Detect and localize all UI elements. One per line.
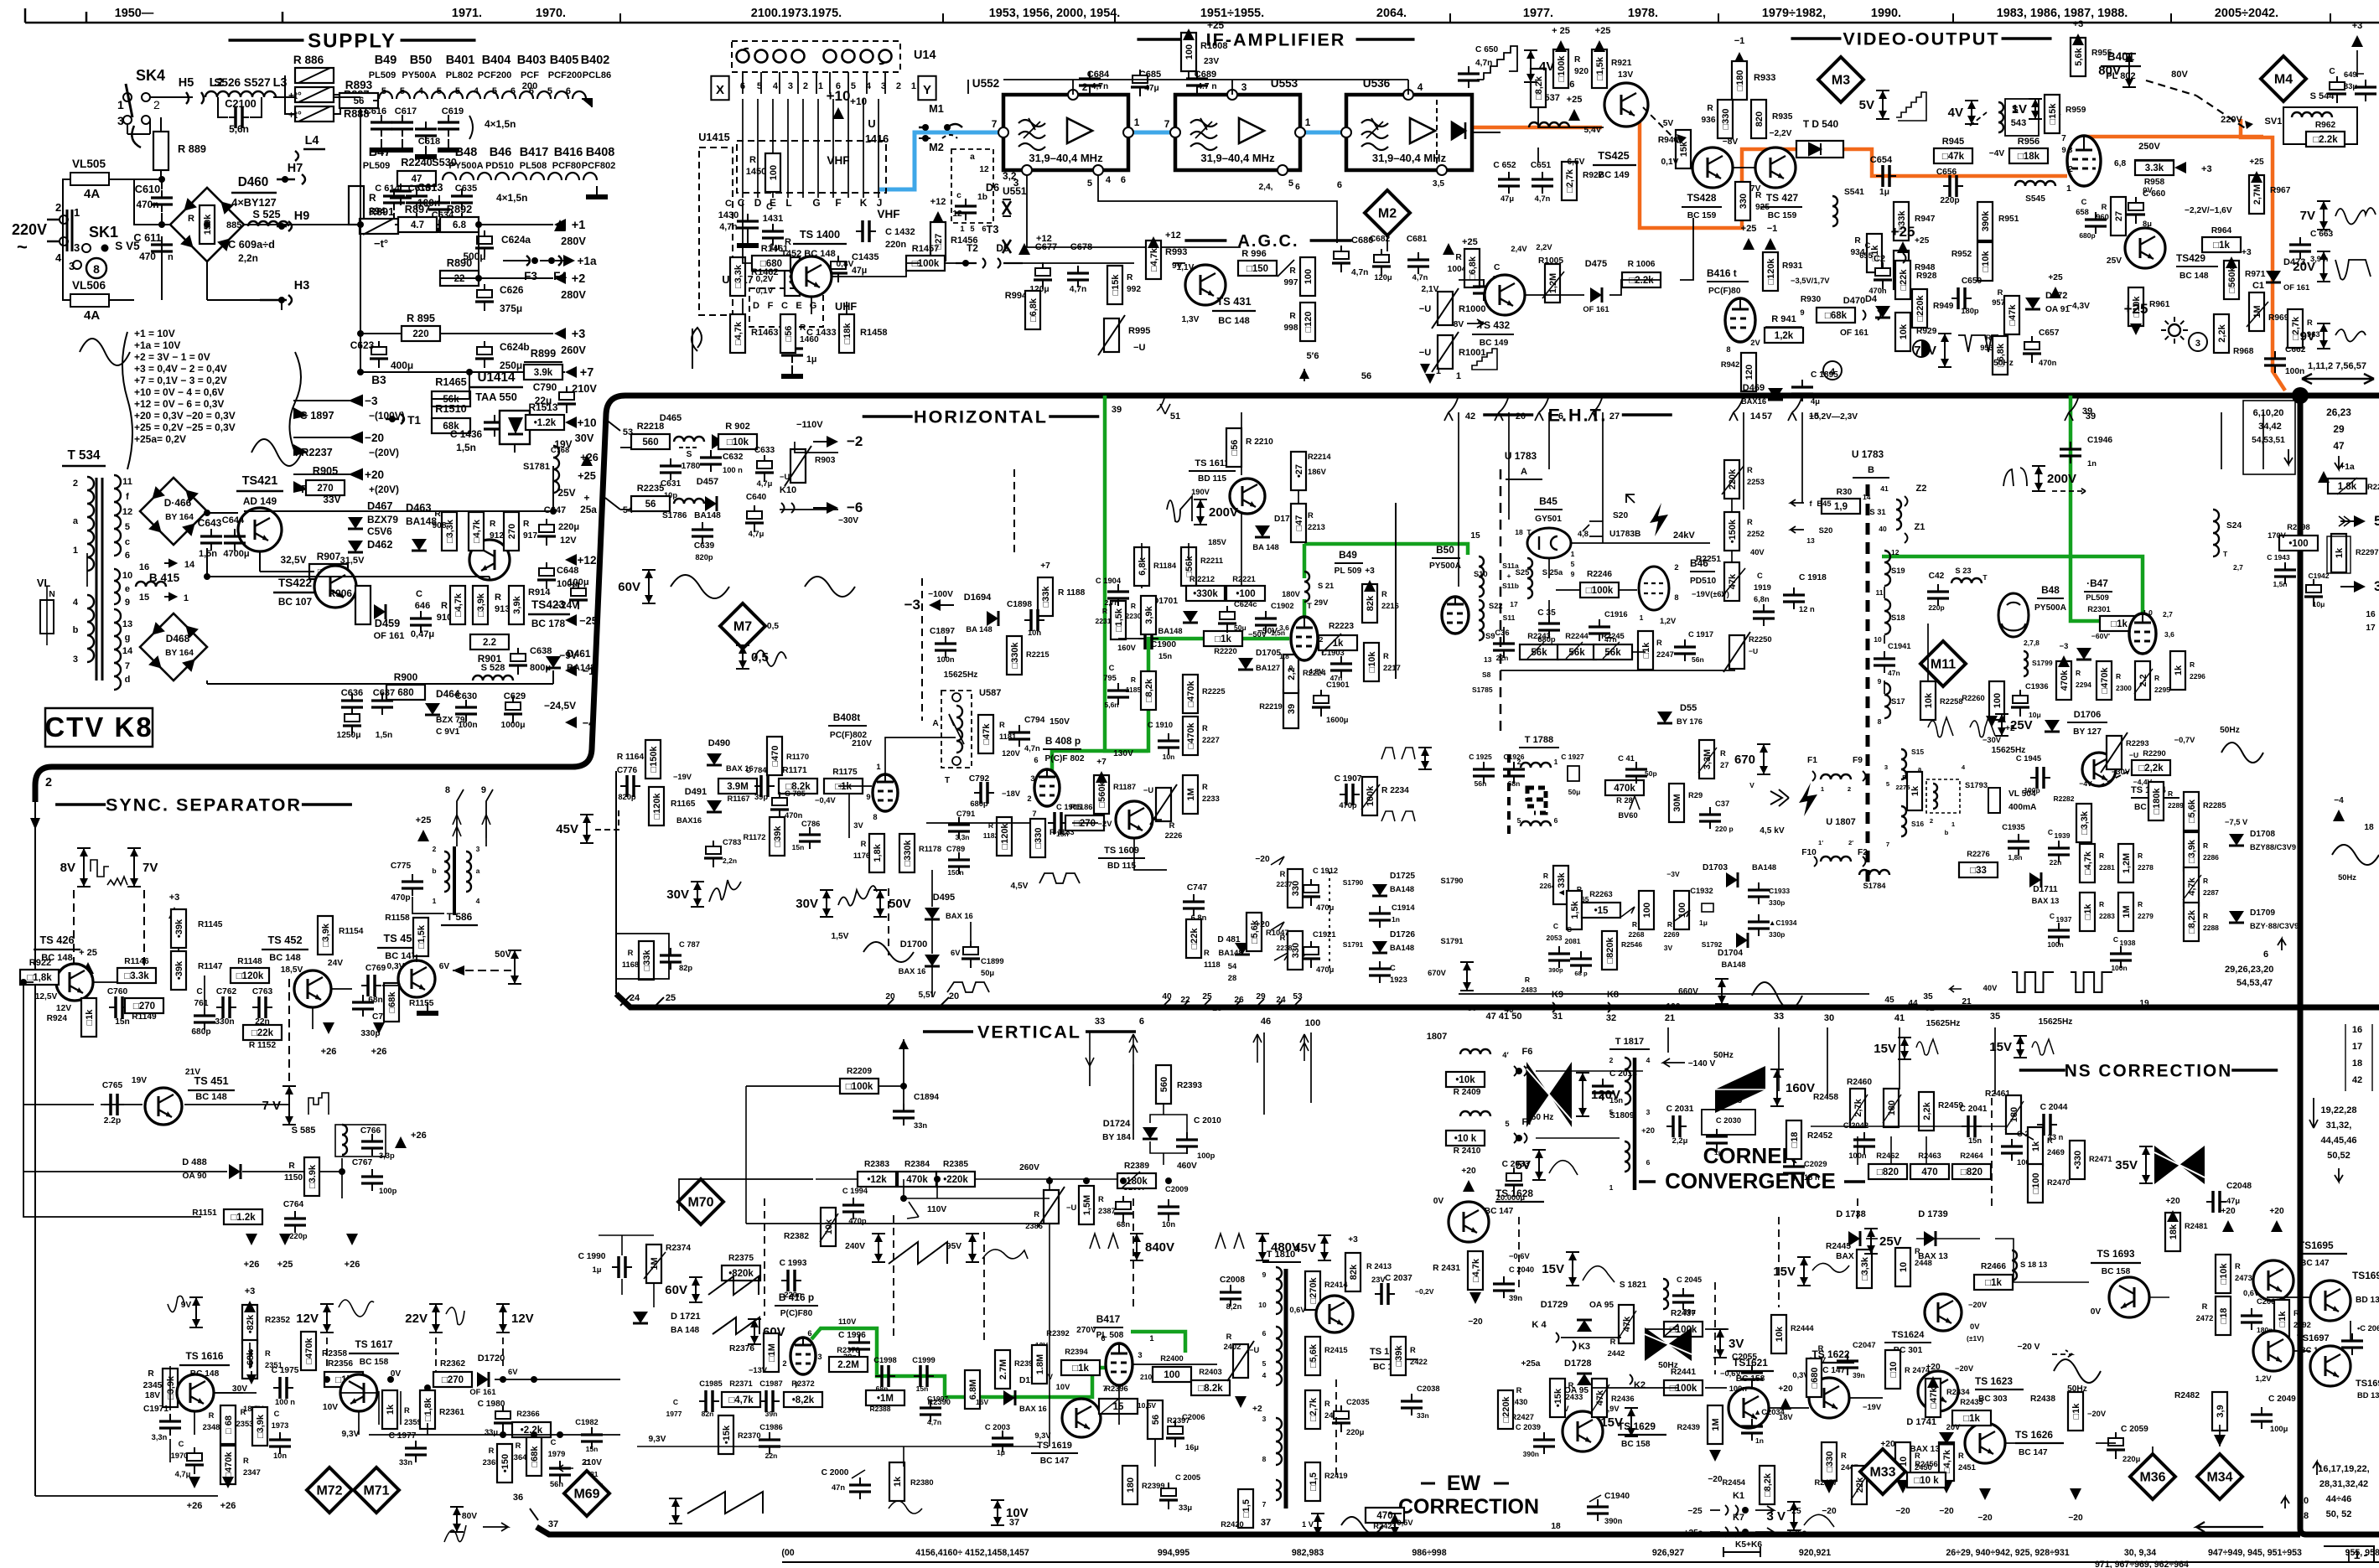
svg-text:2081: 2081 xyxy=(1565,937,1581,945)
svg-text:27: 27 xyxy=(2114,211,2124,221)
svg-text:C: C xyxy=(673,1398,678,1406)
diode D457 xyxy=(694,477,721,520)
diamond M69 xyxy=(564,1471,609,1516)
svg-text:180p: 180p xyxy=(1961,307,1979,315)
svg-text:R2437: R2437 xyxy=(1671,1309,1696,1318)
resistor R2263 xyxy=(1582,890,1635,918)
svg-text:3: 3 xyxy=(788,81,793,91)
transistor TS1626 xyxy=(1965,1423,2005,1463)
svg-text:100: 100 xyxy=(1993,693,2003,708)
coil S1784 xyxy=(1859,870,1889,875)
svg-text:8: 8 xyxy=(1726,345,1730,354)
cap C2033 xyxy=(1496,1160,1530,1202)
svg-text:BC 158: BC 158 xyxy=(360,1358,389,1367)
svg-text:□2.2k: □2.2k xyxy=(2313,135,2338,145)
svg-text:100: 100 xyxy=(1304,269,1314,284)
svg-text:82p: 82p xyxy=(679,964,692,972)
cap C1436 xyxy=(450,415,505,453)
svg-text:□1k: □1k xyxy=(1072,1364,1089,1374)
svg-text:1,8n: 1,8n xyxy=(2008,853,2022,862)
resistor R2372 xyxy=(784,1379,822,1407)
green trace B49 grid xyxy=(1303,599,1307,616)
heater pin numbers row1 xyxy=(381,86,571,96)
svg-text:670: 670 xyxy=(1734,753,1755,767)
wave sine h1 xyxy=(671,575,729,598)
svg-text:1,3V: 1,3V xyxy=(1182,315,1200,324)
svg-text:50Hz: 50Hz xyxy=(2220,726,2240,735)
svg-text:1,1V: 1,1V xyxy=(1177,263,1195,272)
svg-text:□10k: □10k xyxy=(727,437,749,448)
diode D1705 xyxy=(1238,649,1281,672)
svg-text:1176: 1176 xyxy=(853,851,870,860)
svg-text:D1728: D1728 xyxy=(1564,1358,1592,1369)
svg-text:100: 100 xyxy=(1642,903,1652,918)
svg-text:5: 5 xyxy=(400,86,405,96)
antenna VHF xyxy=(692,328,702,369)
svg-text:C: C xyxy=(1567,925,1572,934)
tube B46 xyxy=(1639,563,1679,625)
svg-text:28: 28 xyxy=(1228,974,1236,982)
svg-text:C1898: C1898 xyxy=(1007,600,1032,609)
svg-text:210V: 210V xyxy=(852,739,872,748)
svg-text:1970: 1970 xyxy=(171,1452,189,1460)
resistor R2472 xyxy=(2196,1296,2231,1335)
svg-text:2064.: 2064. xyxy=(1376,7,1407,20)
thermistor R887 xyxy=(288,87,369,102)
svg-text:2213: 2213 xyxy=(1308,523,1325,531)
svg-text:BC 149: BC 149 xyxy=(1598,170,1629,180)
wire sync rail 1164 xyxy=(32,976,34,978)
svg-text:5: 5 xyxy=(757,81,762,91)
resistor R2474 xyxy=(1885,1350,1931,1389)
svg-text:4: 4 xyxy=(418,86,424,96)
svg-text:+20: +20 xyxy=(2221,1207,2236,1216)
svg-text:C681: C681 xyxy=(1407,235,1428,244)
svg-text:3: 3 xyxy=(117,114,124,127)
diode D1741 xyxy=(1906,1417,1954,1454)
svg-text:1,2M: 1,2M xyxy=(1548,273,1558,293)
cap C764 xyxy=(283,1200,308,1240)
svg-text:1: 1 xyxy=(433,897,437,905)
svg-text:PY500A: PY500A xyxy=(402,70,436,80)
transistor TS1616 xyxy=(145,1350,230,1411)
svg-text:8V: 8V xyxy=(60,861,75,875)
svg-text:1: 1 xyxy=(1554,758,1558,766)
svg-text:6: 6 xyxy=(1558,411,1563,422)
resistors R2383 R2384 R2385 xyxy=(858,1160,975,1187)
svg-text:220p: 220p xyxy=(289,1232,308,1240)
cap C2007 xyxy=(1114,1183,1146,1229)
svg-text:□10k: □10k xyxy=(1981,251,1991,272)
dash wave ts452 xyxy=(288,979,290,1085)
cap C1905 xyxy=(1048,803,1081,838)
svg-text:R1175: R1175 xyxy=(832,768,858,777)
svg-text:C1998: C1998 xyxy=(873,1356,897,1364)
svg-text:+1 = 10V: +1 = 10V xyxy=(134,328,175,339)
coil S1813 xyxy=(2012,1250,2017,1281)
resistor R1186 xyxy=(1065,803,1104,831)
svg-text:□10: □10 xyxy=(1889,1362,1899,1378)
green trace EHT right xyxy=(2071,396,2133,621)
svg-text:R945: R945 xyxy=(1942,137,1964,147)
svg-text:F: F xyxy=(768,301,774,311)
blue IF signal trace xyxy=(879,132,1003,189)
wire AGC vert xyxy=(743,201,752,263)
cap C1912 xyxy=(1302,867,1338,912)
svg-text:1b: 1b xyxy=(977,193,987,202)
svg-text:5: 5 xyxy=(851,81,856,91)
svg-text:C1942: C1942 xyxy=(2308,572,2329,580)
resistor R1167 xyxy=(718,779,757,803)
svg-text:10n: 10n xyxy=(1028,629,1041,637)
wave 15V br2 xyxy=(1542,1252,1579,1286)
svg-text:C626: C626 xyxy=(500,284,524,296)
wire eht tails ext xyxy=(1743,469,1744,510)
tube B408t xyxy=(873,774,898,811)
svg-text:1: 1 xyxy=(1134,116,1140,128)
resistor R1158 xyxy=(385,913,428,956)
green trace EHT horizontal xyxy=(1882,556,2143,615)
svg-text:1k: 1k xyxy=(2335,547,2345,558)
wire left bottom border xyxy=(35,1495,218,1497)
caps C682 C681 xyxy=(1370,235,1429,282)
svg-text:R890: R890 xyxy=(447,256,472,269)
svg-text:7 V: 7 V xyxy=(262,1099,281,1113)
resistor R1154 xyxy=(318,916,364,955)
svg-text:−0,2V: −0,2V xyxy=(1415,1287,1434,1296)
wave 15V 25V br xyxy=(1773,1257,1811,1286)
svg-text:400μ: 400μ xyxy=(391,360,413,371)
svg-text:1807: 1807 xyxy=(1427,1032,1448,1042)
svg-text:18 n: 18 n xyxy=(1804,1173,1820,1182)
svg-text:7: 7 xyxy=(1886,841,1889,848)
arrows +20 ns xyxy=(2167,1210,2179,1222)
svg-text:•330: •330 xyxy=(2073,1151,2083,1169)
svg-text:S8: S8 xyxy=(1482,670,1491,679)
svg-text:2247: 2247 xyxy=(1656,650,1674,659)
svg-text:M36: M36 xyxy=(2139,1471,2165,1485)
resistor R933 xyxy=(1732,61,1775,100)
svg-text:7: 7 xyxy=(1032,810,1036,818)
svg-text:R2438: R2438 xyxy=(2030,1395,2055,1404)
svg-text:100n: 100n xyxy=(1729,1384,1748,1393)
svg-text:8,2n: 8,2n xyxy=(1226,1302,1242,1311)
svg-text:R: R xyxy=(2102,203,2107,211)
svg-text:7: 7 xyxy=(1262,1500,1267,1508)
svg-text:560: 560 xyxy=(1159,1077,1169,1092)
svg-text:R2371: R2371 xyxy=(729,1379,753,1388)
svg-text:−24V: −24V xyxy=(555,599,578,611)
svg-text:□33k: □33k xyxy=(1041,586,1051,608)
svg-text:□100k: □100k xyxy=(1670,1384,1697,1394)
svg-text:K10: K10 xyxy=(780,485,796,495)
svg-text:R2243: R2243 xyxy=(1527,632,1551,640)
svg-text:4: 4 xyxy=(55,251,62,264)
resistor R997 xyxy=(1284,257,1316,296)
footer box mark xyxy=(2324,1546,2374,1561)
svg-text:+12: +12 xyxy=(577,554,596,567)
svg-text:R2378: R2378 xyxy=(837,1346,860,1354)
wave mid pulses xyxy=(1090,1234,1118,1249)
diamond M3 xyxy=(1818,57,1863,102)
svg-text:5: 5 xyxy=(1288,179,1293,189)
svg-text:BZX79: BZX79 xyxy=(367,514,398,525)
svg-text:+26: +26 xyxy=(411,1131,427,1141)
svg-text:BY 184: BY 184 xyxy=(1102,1133,1131,1142)
svg-text:BC 148: BC 148 xyxy=(1218,316,1249,326)
orange video trace 3 xyxy=(1844,149,2067,176)
svg-text:37: 37 xyxy=(548,1519,558,1529)
svg-text:C 650: C 650 xyxy=(1475,45,1499,54)
svg-text:10: 10 xyxy=(1874,635,1882,644)
svg-text:R1170: R1170 xyxy=(786,753,809,761)
svg-text:29V: 29V xyxy=(1314,598,1329,607)
coil S17 xyxy=(1884,683,1890,718)
svg-text:OF 161: OF 161 xyxy=(469,1388,495,1396)
svg-text:−13V: −13V xyxy=(749,1366,768,1374)
svg-text:2231: 2231 xyxy=(1096,617,1112,625)
coil S541 xyxy=(1832,188,1864,226)
cap C2037 xyxy=(1375,1274,1434,1305)
svg-text:+2 = 3V − 1 = 0V: +2 = 3V − 1 = 0V xyxy=(134,351,210,363)
svg-text:R 2413: R 2413 xyxy=(1366,1262,1392,1270)
svg-text:C762: C762 xyxy=(216,987,237,996)
svg-text:C 1432: C 1432 xyxy=(885,227,915,237)
resistor R2225 xyxy=(1183,675,1226,713)
resistor R2470 xyxy=(2028,1164,2071,1203)
label B408t xyxy=(828,712,872,748)
diode D473 xyxy=(2266,257,2309,292)
svg-text:2,2n: 2,2n xyxy=(723,856,737,865)
resistor R1146 xyxy=(117,957,156,983)
svg-text:100k: 100k xyxy=(1366,785,1376,806)
wire 46 100 tails xyxy=(1263,1032,1265,1115)
cap C624b xyxy=(475,341,530,371)
svg-text:6: 6 xyxy=(1646,1158,1651,1167)
cap C2038 xyxy=(1401,1384,1440,1420)
svg-text:R: R xyxy=(495,593,501,603)
svg-text:80V: 80V xyxy=(462,1512,477,1521)
svg-text:1,8: 1,8 xyxy=(1279,652,1289,660)
svg-text:220n: 220n xyxy=(885,240,906,250)
svg-text:S19: S19 xyxy=(1891,567,1905,575)
svg-text:6: 6 xyxy=(1295,183,1300,192)
svg-text:4.7: 4.7 xyxy=(411,220,424,230)
svg-text:15V: 15V xyxy=(1874,1042,1896,1056)
arrow +12 agc xyxy=(1018,243,1030,255)
eht long wire xyxy=(1743,412,1744,469)
svg-text:5V: 5V xyxy=(1859,98,1874,112)
svg-text:1923: 1923 xyxy=(1390,975,1407,984)
transistor TS427 xyxy=(1755,147,1796,188)
resistor R921 xyxy=(1592,49,1633,88)
arrow +12 tuner xyxy=(932,211,944,223)
cap C659 xyxy=(1951,277,1982,315)
resistor R2217 xyxy=(1364,643,1401,681)
svg-text:R: R xyxy=(2307,318,2313,327)
svg-text:330n: 330n xyxy=(215,1017,234,1027)
svg-text:R: R xyxy=(1204,949,1210,957)
svg-text:R1184: R1184 xyxy=(1153,561,1177,570)
svg-text:2: 2 xyxy=(73,479,78,489)
svg-text:R 1152: R 1152 xyxy=(249,1041,277,1050)
cap C1996 xyxy=(838,1317,870,1361)
svg-text:15625Hz: 15625Hz xyxy=(2039,1017,2073,1027)
heater tube sublabels row2 xyxy=(363,161,616,171)
cap C1986 xyxy=(759,1423,783,1460)
svg-text:56n: 56n xyxy=(550,1480,563,1488)
svg-text:+2: +2 xyxy=(1252,1405,1262,1414)
svg-text:1990.: 1990. xyxy=(1871,7,1901,20)
cap C1940 xyxy=(1587,1492,1630,1525)
dash verticals horiz xyxy=(921,578,923,721)
svg-text:45V: 45V xyxy=(556,822,578,836)
svg-text:10k: 10k xyxy=(1899,323,1909,339)
svg-text:TS1697: TS1697 xyxy=(2297,1333,2330,1343)
cap C2010 xyxy=(1176,1116,1221,1160)
resistor R2437 xyxy=(1664,1309,1703,1337)
cap C638 xyxy=(509,648,527,675)
svg-text:4,7μ: 4,7μ xyxy=(175,1470,191,1478)
tuner bus wires xyxy=(743,99,879,198)
svg-text:PCF80: PCF80 xyxy=(552,161,581,171)
svg-text:K 4: K 4 xyxy=(1532,1320,1547,1330)
svg-text:885: 885 xyxy=(226,220,241,230)
svg-text:16μ: 16μ xyxy=(1185,1443,1199,1452)
diode D1694 xyxy=(964,593,998,634)
svg-text:+25: +25 xyxy=(2124,301,2148,317)
svg-text:□560k: □560k xyxy=(1097,781,1107,808)
svg-text:543: 543 xyxy=(2011,118,2026,128)
svg-text:R2352: R2352 xyxy=(265,1316,290,1325)
svg-text:39: 39 xyxy=(2082,406,2092,417)
svg-text:□1k: □1k xyxy=(1963,1414,1980,1424)
svg-text:3: 3 xyxy=(1262,1415,1267,1423)
svg-text:470: 470 xyxy=(1921,1167,1937,1177)
right margin sine 50hz xyxy=(2332,845,2379,865)
legend sine left xyxy=(80,339,130,365)
svg-text:R1149: R1149 xyxy=(132,1012,157,1022)
svg-text:□33k: □33k xyxy=(642,950,652,971)
eht long wire xyxy=(1458,412,1459,469)
cap C2040 xyxy=(1493,1252,1534,1302)
svg-text:220μ: 220μ xyxy=(558,522,579,532)
connector T1 xyxy=(386,414,404,424)
resistor R912 xyxy=(469,512,484,551)
svg-text:S 18 13: S 18 13 xyxy=(2020,1260,2047,1269)
resistor R927 xyxy=(1562,162,1604,200)
svg-text:−U: −U xyxy=(1419,304,1431,314)
svg-text:R: R xyxy=(1958,1452,1964,1460)
arrow -1 video xyxy=(1734,52,1745,64)
IF amplifier U536 xyxy=(1337,77,1472,190)
resistor R2287 xyxy=(2183,867,2219,906)
label U1783B col xyxy=(1852,448,1889,478)
svg-text:+20: +20 xyxy=(1641,1126,1655,1135)
svg-text:C2047: C2047 xyxy=(1853,1341,1876,1349)
cap C2044 xyxy=(2037,1103,2068,1141)
svg-text:4: 4 xyxy=(73,598,79,608)
svg-text:BZY·88/C3V9: BZY·88/C3V9 xyxy=(2250,922,2299,930)
svg-text:R: R xyxy=(749,155,756,165)
svg-text:BC 158: BC 158 xyxy=(2102,1267,2131,1276)
svg-text:34,42: 34,42 xyxy=(2258,422,2282,432)
svg-text:9: 9 xyxy=(125,598,130,608)
resistor R1152 xyxy=(243,1025,282,1050)
resistor R1175 xyxy=(824,768,863,794)
svg-text:R: R xyxy=(489,1446,495,1455)
svg-text:B417: B417 xyxy=(1096,1313,1121,1325)
svg-text:R: R xyxy=(148,1369,154,1379)
heater caps C616-C619 xyxy=(365,106,516,147)
resistor R924 xyxy=(47,998,96,1037)
svg-text:−24,5V: −24,5V xyxy=(544,700,576,712)
svg-text:VHF: VHF xyxy=(877,208,899,220)
svg-text:22V: 22V xyxy=(405,1312,428,1326)
svg-text:C2048: C2048 xyxy=(2226,1182,2252,1191)
svg-text:R2214: R2214 xyxy=(1308,453,1331,461)
diode D1728 xyxy=(1521,1358,1592,1395)
svg-text:2295: 2295 xyxy=(2154,686,2170,694)
resistor R895 xyxy=(402,312,440,341)
svg-text:B408t: B408t xyxy=(833,712,860,723)
resistor R2403 xyxy=(1191,1368,1230,1395)
svg-text:H5: H5 xyxy=(179,76,194,90)
connector L4 xyxy=(295,149,325,161)
svg-text:M7: M7 xyxy=(733,620,752,634)
svg-text:1: 1 xyxy=(960,225,964,233)
resistor R28 xyxy=(1605,769,1657,805)
cap C1918 xyxy=(1783,573,1827,613)
svg-text:1600μ: 1600μ xyxy=(1326,716,1349,724)
resistor R1155 xyxy=(384,983,434,1022)
wire br pin columns xyxy=(1667,1027,1669,1053)
diode D464 xyxy=(425,703,440,715)
svg-text:C 2041: C 2041 xyxy=(1960,1105,1988,1114)
resistor R901 xyxy=(470,634,509,665)
svg-text:110V: 110V xyxy=(838,1317,857,1326)
resistor R902 xyxy=(718,422,757,449)
wire horiz bus 534 xyxy=(795,442,838,453)
IC U1414 xyxy=(469,370,523,403)
svg-text:1953, 1956, 2000, 1954.: 1953, 1956, 2000, 1954. xyxy=(989,7,1121,20)
svg-text:25V: 25V xyxy=(1879,1234,1902,1249)
thermistor R888 xyxy=(288,106,369,122)
svg-text:7V: 7V xyxy=(2300,209,2315,223)
svg-text:R921: R921 xyxy=(1611,59,1632,68)
svg-text:M2: M2 xyxy=(1378,207,1397,221)
svg-text:R 902: R 902 xyxy=(725,422,749,432)
svg-text:D 488: D 488 xyxy=(182,1157,206,1167)
wire sync row main xyxy=(32,976,59,978)
diamond M70 xyxy=(678,1179,723,1224)
arrow +3 b401 xyxy=(2072,34,2084,45)
svg-text:−50V: −50V xyxy=(1248,630,1267,639)
svg-text:R951: R951 xyxy=(1998,215,2019,224)
transistor TS428 xyxy=(1692,147,1733,188)
svg-text:D470: D470 xyxy=(1843,296,1865,306)
svg-text:30V: 30V xyxy=(575,432,594,444)
svg-text:1n: 1n xyxy=(1392,915,1400,924)
svg-text:□15k: □15k xyxy=(2048,103,2058,125)
svg-text:15n: 15n xyxy=(1158,652,1172,660)
svg-text:TAA 550: TAA 550 xyxy=(475,391,517,403)
svg-text:R: R xyxy=(188,214,194,224)
cap C35 xyxy=(1537,608,1560,644)
resistor R2238b xyxy=(1277,931,1303,970)
svg-text:•330k: •330k xyxy=(1193,589,1218,599)
svg-text:R2235: R2235 xyxy=(637,484,665,494)
